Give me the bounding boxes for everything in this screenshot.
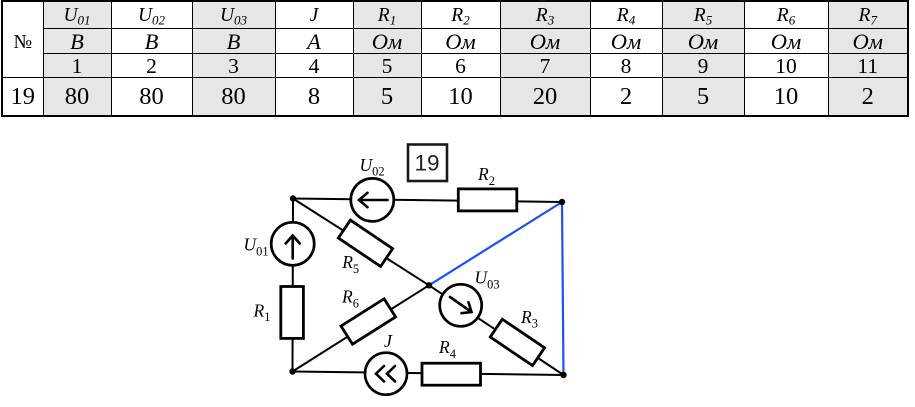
voltage source U02 [351,178,394,221]
svg-text:19: 19 [414,151,439,176]
resistor R3 [490,319,544,365]
svg-text:J: J [384,331,393,351]
node BL junction dot [289,368,295,374]
resistor R4 [422,363,481,385]
svg-text:U02: U02 [360,155,385,179]
svg-text:R3: R3 [520,307,538,331]
svg-text:R5: R5 [341,252,359,276]
wire left: node TL to node BL [292,199,295,372]
svg-text:U03: U03 [475,268,500,292]
svg-text:U01: U01 [244,235,269,259]
stray mark above table (clipped text) [539,0,546,2]
svg-text:R1: R1 [253,300,271,324]
resistor R2 [458,189,517,211]
wire bottom: node BL to node BR [293,372,564,376]
resistor R6 [341,299,396,344]
svg-text:R4: R4 [438,337,456,361]
variant number box 19 [408,145,447,182]
current source J [365,353,407,395]
voltage source U01 [271,222,314,265]
node TL junction dot [290,195,296,201]
node C junction dot [426,282,432,288]
wire blue diagonal: node C to node TR [429,202,562,285]
wire top: node TL to node TR [293,199,562,203]
voltage source U03 [440,284,482,326]
wire blue right: node TR to node BR [562,202,564,375]
data table [1,0,909,117]
wire diagonal: node TL to node C [293,199,429,286]
wire diagonal: node BL to node C [293,285,430,371]
wire diagonal: node C to node BR [429,285,564,375]
node BR junction dot [560,372,566,378]
svg-text:R2: R2 [477,164,495,188]
stray mark above table right (clipped text) [739,0,747,1]
resistor R1 [281,287,304,339]
node TR junction dot [559,199,565,205]
svg-text:R6: R6 [341,287,359,311]
resistor R5 [338,220,392,266]
